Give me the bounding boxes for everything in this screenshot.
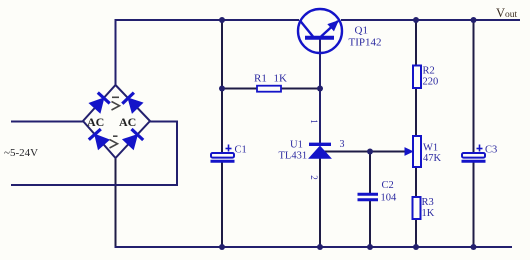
transistor Q1 base bar	[305, 36, 334, 40]
wire bottom ground rail	[115, 246, 513, 248]
wire R3 bottom lead	[415, 219, 417, 247]
capacitor C1 top plate	[211, 153, 234, 158]
svg-text:104: 104	[381, 193, 398, 204]
node dot ground / R3	[413, 244, 419, 250]
bridge diode bottom-left	[89, 129, 109, 149]
wire C2 branch lower	[369, 199, 371, 247]
capacitor C3 top plate	[462, 153, 485, 158]
bridge diode bottom-right	[123, 129, 143, 149]
svg-text:C2: C2	[382, 180, 394, 191]
wire U1 anode to ground rail	[319, 158, 321, 248]
potentiometer W1 body	[413, 136, 421, 167]
bridge diode top-right	[122, 93, 142, 113]
svg-text:2: 2	[309, 175, 319, 180]
wire C1 branch upper	[221, 20, 223, 154]
node dot top rail / C3	[471, 17, 477, 23]
svg-text:47K: 47K	[423, 153, 442, 164]
wire U1 reference pin 3 to W1 wiper	[323, 151, 406, 153]
svg-text:U1: U1	[290, 140, 303, 151]
svg-text:Q1: Q1	[355, 25, 368, 37]
node dot ground / C1	[219, 244, 225, 250]
node dot ground / C3	[471, 244, 477, 250]
svg-text:1K: 1K	[422, 208, 435, 219]
node dot ground / U1	[317, 244, 323, 250]
resistor R1 body	[257, 86, 281, 92]
svg-text:R1: R1	[254, 73, 267, 85]
svg-text:W1: W1	[423, 143, 438, 154]
wire C3 branch lower	[473, 162, 475, 247]
svg-text:220: 220	[423, 77, 439, 88]
bridge plus polarity mark	[112, 97, 120, 110]
wire top rail right segment to Vout	[341, 19, 520, 21]
transistor Q1 emitter line with arrow	[321, 21, 338, 37]
svg-text:3: 3	[340, 139, 345, 150]
node dot ground / C2	[367, 244, 373, 250]
wire C2 branch upper	[369, 152, 371, 195]
wire Q1 base to U1 cathode	[319, 39, 321, 144]
capacitor C2 bottom plate	[358, 198, 379, 201]
capacitor C3 bottom plate	[462, 160, 486, 163]
svg-text:R3: R3	[422, 197, 434, 208]
wire bridge bottom vertical to ground rail	[115, 157, 117, 247]
wire AC input top lead	[11, 121, 84, 123]
U1 TL431 cathode bar	[309, 143, 331, 146]
svg-text:1: 1	[309, 119, 319, 124]
node dot top rail / R2	[413, 17, 419, 23]
wire W1 to R3	[415, 167, 417, 197]
wire R2 top lead	[415, 20, 417, 66]
C3 plus mark	[477, 145, 483, 152]
node dot R1 left	[219, 86, 225, 92]
resistor R3 body	[413, 197, 421, 219]
svg-text:1K: 1K	[274, 73, 288, 85]
svg-text:TIP142: TIP142	[349, 37, 382, 49]
svg-text:TL431: TL431	[279, 151, 308, 162]
wire top rail left segment	[116, 19, 300, 21]
svg-text:AC: AC	[119, 115, 136, 129]
transistor Q1 collector line	[300, 20, 314, 37]
node dot top rail / C1	[219, 17, 225, 23]
svg-text:AC: AC	[87, 115, 104, 129]
wire AC input bottom lead	[11, 122, 177, 186]
svg-text:~5-24V: ~5-24V	[4, 147, 38, 159]
node dot R1 right / Q1 base	[317, 86, 323, 92]
resistor R2 body	[413, 66, 421, 89]
wire bridge top vertical	[115, 19, 117, 86]
bridge diode top-left	[89, 93, 109, 113]
U1 TL431 triangle	[309, 146, 331, 158]
wire C1 branch lower	[221, 162, 223, 247]
capacitor C2 top plate	[358, 193, 379, 196]
node dot ref wire / C2	[367, 149, 373, 155]
svg-text:R2: R2	[423, 66, 435, 77]
svg-text:C3: C3	[485, 145, 497, 156]
capacitor C1 bottom plate	[211, 160, 235, 163]
potentiometer W1 wiper arrow	[405, 148, 413, 155]
wire R2 to W1	[415, 87, 417, 136]
C1 plus mark	[226, 145, 232, 152]
svg-text:C1: C1	[235, 145, 247, 156]
wire C3 branch upper	[473, 20, 475, 154]
transistor Q1 circle	[298, 9, 342, 53]
wire R1 horizontal	[222, 88, 320, 90]
bridge minus polarity mark	[110, 136, 118, 148]
bridge rectifier diamond frame	[83, 85, 150, 158]
